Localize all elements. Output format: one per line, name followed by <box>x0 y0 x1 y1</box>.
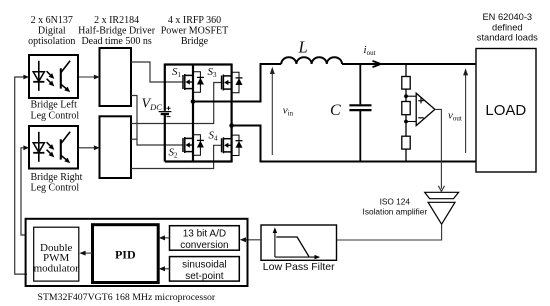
svg-text:ISO 124: ISO 124 <box>380 196 411 206</box>
svg-text:Dead time 500 ns: Dead time 500 ns <box>81 36 151 47</box>
svg-text:4 x IRFP 360: 4 x IRFP 360 <box>168 15 221 26</box>
svg-text:defined: defined <box>492 22 523 32</box>
svg-text:modulator: modulator <box>34 263 80 275</box>
svg-text:LOAD: LOAD <box>485 102 526 119</box>
svg-text:Leg Control: Leg Control <box>31 110 80 121</box>
svg-text:Bridge Right: Bridge Right <box>31 172 83 183</box>
svg-text:set-point: set-point <box>185 271 224 282</box>
svg-text:Isolation amplifier: Isolation amplifier <box>363 206 428 216</box>
svg-text:2 x 6N137: 2 x 6N137 <box>31 15 73 26</box>
svg-text:Leg Control: Leg Control <box>31 183 80 194</box>
svg-text:EN 62040-3: EN 62040-3 <box>482 12 532 22</box>
svg-text:PID: PID <box>115 247 136 261</box>
svg-text:standard loads: standard loads <box>477 33 538 43</box>
svg-text:conversion: conversion <box>180 240 228 251</box>
svg-text:Digital: Digital <box>38 25 66 36</box>
svg-text:2 x IR2184: 2 x IR2184 <box>94 15 139 26</box>
svg-text:C: C <box>330 102 341 119</box>
svg-text:Half-Bridge Driver: Half-Bridge Driver <box>78 25 156 36</box>
svg-text:Bridge Left: Bridge Left <box>31 100 78 111</box>
svg-text:13 bit A/D: 13 bit A/D <box>183 229 226 240</box>
svg-text:STM32F407VGT6 168 MHz micropro: STM32F407VGT6 168 MHz microprocessor <box>38 292 216 303</box>
svg-text:Low Pass Filter: Low Pass Filter <box>263 261 335 273</box>
svg-text:Bridge: Bridge <box>181 36 209 47</box>
svg-text:L: L <box>298 37 308 56</box>
svg-text:optisolation: optisolation <box>28 36 75 47</box>
svg-text:sinusoidal: sinusoidal <box>182 260 226 271</box>
svg-text:Power MOSFET: Power MOSFET <box>161 25 229 36</box>
